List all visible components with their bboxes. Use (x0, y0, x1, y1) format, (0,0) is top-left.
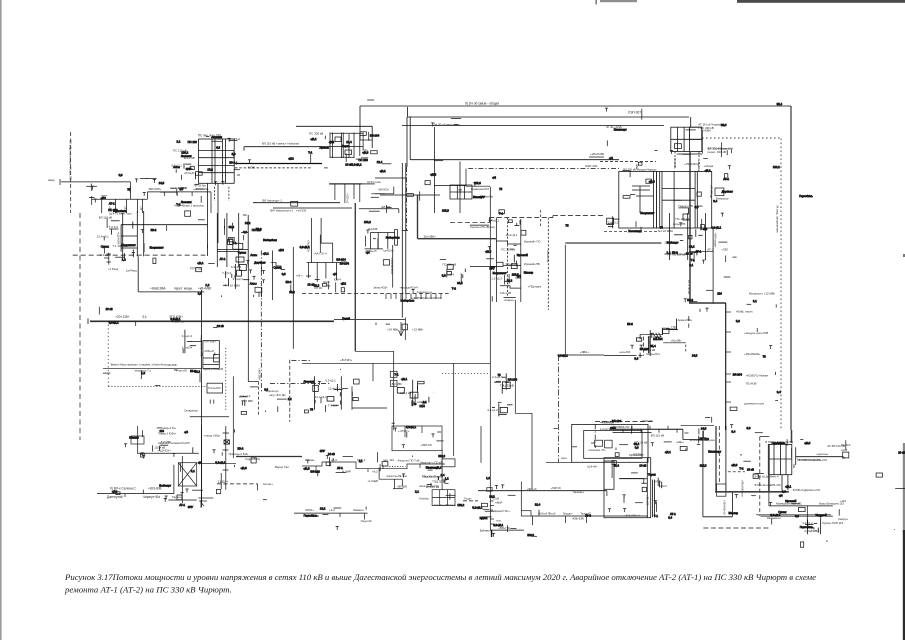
wire bus v1 x137 (136, 211, 138, 256)
wire mesh h193 (371, 193, 393, 195)
svg-text:+j0,8: +j0,8 (485, 250, 492, 254)
Дербент substation (768, 444, 795, 490)
wire jog2 (552, 216, 554, 218)
svg-text:Бабаюрт: Бабаюрт (159, 484, 171, 488)
svg-text:ВЛ-104: ВЛ-104 (733, 372, 743, 376)
svg-text:ВЛ-104: ВЛ-104 (612, 419, 622, 423)
svg-text:ВЛ 110 кВ: ВЛ 110 кВ (651, 434, 664, 438)
svg-text:Черкей ГЭС+: Черкей ГЭС+ (494, 509, 511, 513)
svg-text:+ЗВ+ЗВ+ЮВ+: +ЗВ+ЗВ+ЮВ+ (390, 258, 393, 275)
wire H y517 (703, 516, 733, 518)
ladder grid (432, 490, 455, 506)
wire dashdot H y528 (703, 527, 770, 529)
svg-text:+ЮН ОЛА: +ЮН ОЛА (195, 187, 208, 191)
svg-text:3,4: 3,4 (713, 199, 717, 203)
svg-text:АТ-1: АТ-1 (337, 466, 343, 470)
svg-text:+ЮЗУ-х2: +ЮЗУ-х2 (346, 193, 349, 204)
labels labels VV (707, 248, 728, 252)
svg-text:24,5+j8,2: 24,5+j8,2 (184, 171, 196, 175)
svg-text:18,2: 18,2 (320, 507, 326, 511)
wire drop at x360 (359, 106, 361, 140)
svg-text:0,8: 0,8 (216, 146, 220, 150)
svg-text:+110: +110 (840, 499, 847, 503)
svg-text:+8,4: +8,4 (331, 458, 337, 462)
svg-text:+ЗВА+: +ЗВА+ (580, 350, 589, 354)
svg-text:75: 75 (413, 402, 417, 406)
wire (689, 250, 713, 252)
svg-text:+j0,8: +j0,8 (649, 179, 656, 183)
wire corner x398 (398, 209, 400, 213)
wire heavy top stub (354, 203, 356, 213)
svg-text:+j2,4: +j2,4 (841, 448, 848, 452)
substation cluster Гуниб Q (397, 380, 429, 407)
svg-text:10 кВ: 10 кВ (686, 252, 693, 256)
labels of Гуниб Q (392, 382, 426, 404)
wire (141, 453, 143, 455)
svg-text:+кЗ+Ч: +кЗ+Ч (659, 484, 667, 488)
wire heavy L horizontal (418, 238, 497, 240)
svg-text:0,8: 0,8 (747, 426, 751, 430)
svg-text:10 кВ: 10 кВ (217, 324, 224, 328)
svg-text:6,3+j2,1: 6,3+j2,1 (472, 506, 482, 510)
svg-text:+ЛЭП-ПО: +ЛЭП-ПО (420, 443, 432, 447)
svg-text:КЗ-2: КЗ-2 (151, 228, 157, 232)
small box right of F (715, 188, 724, 196)
svg-text:АТ-1 ЧГЭС: АТ-1 ЧГЭС (687, 280, 691, 295)
svg-text:2,1+j0,4: 2,1+j0,4 (182, 346, 193, 350)
wire link x407 top (406, 107, 408, 117)
svg-text:+кВаР: +кВаР (495, 501, 503, 504)
wire tick (191, 192, 193, 196)
svg-text:+j4: +j4 (779, 493, 783, 497)
svg-text:Мощн+Югэ: Мощн+Югэ (646, 352, 660, 356)
wire (137, 426, 139, 454)
svg-text:+ВЛцЕВ: +ВЛцЕВ (397, 485, 407, 489)
wire tick (213, 400, 215, 404)
wire B3 heavy (236, 456, 302, 458)
wire dash-dot y222 west (450, 222, 489, 224)
svg-text:+ЮВ+ГЭС: +ЮВ+ГЭС (498, 527, 510, 530)
svg-text:3,4: 3,4 (777, 390, 781, 394)
svg-text:ЗГ+ЮВА: ЗГ+ЮВА (673, 158, 677, 169)
svg-text:1,2: 1,2 (141, 371, 145, 375)
wire tie (121, 235, 137, 237)
substation cluster labels LL (0, 0, 1, 1)
svg-text:АТ-1: АТ-1 (670, 512, 676, 516)
labels of ПС Махачкала labels (240, 394, 254, 403)
svg-text:Т-1: Т-1 (308, 151, 313, 155)
svg-text:ПС 110 кВ: ПС 110 кВ (501, 248, 515, 252)
wire up (702, 431, 704, 440)
wire tick (339, 513, 341, 517)
wire dashdot x406 lower (406, 167, 408, 230)
wire x725 join (725, 426, 727, 430)
svg-text:1,2: 1,2 (486, 476, 490, 480)
scan mark right edge dot (903, 254, 905, 257)
svg-text:12,4: 12,4 (377, 160, 383, 164)
svg-text:115,8: 115,8 (474, 181, 481, 185)
wire dashdot y421 (595, 421, 654, 423)
svg-text:ВЛ 110 кВ: ВЛ 110 кВ (99, 216, 112, 220)
wire dash-dot y215 east (553, 215, 604, 217)
wire dashdot v x643 (643, 337, 645, 356)
svg-text:КЗ-2: КЗ-2 (190, 369, 196, 373)
svg-text:6,3+j2,1: 6,3+j2,1 (770, 513, 780, 517)
svg-text:+j3,1: +j3,1 (263, 251, 270, 255)
svg-text:6,3+j2,1: 6,3+j2,1 (231, 265, 242, 269)
wire (200, 500, 202, 508)
svg-text:+j0,8: +j0,8 (804, 441, 811, 445)
wire dotted v x108 (107, 325, 109, 388)
svg-text:1,2+j0,3: 1,2+j0,3 (491, 277, 502, 281)
svg-text:116: 116 (717, 292, 722, 296)
svg-text:Избербаш: Избербаш (386, 235, 400, 239)
svg-text:Гоцатль+ПО кВ(зим): Гоцатль+ПО кВ(зим) (470, 225, 495, 229)
wire tick (166, 225, 168, 231)
wire left stub (61, 181, 131, 183)
box under x137 (131, 436, 144, 444)
svg-text:+j4: +j4 (366, 250, 370, 254)
wire vertical x515 (514, 300, 516, 414)
wire v x460 (459, 162, 461, 214)
svg-text:Бабаюрт: Бабаюрт (667, 241, 679, 245)
Артем box MM (604, 458, 651, 518)
svg-text:Леваши: Леваши (181, 154, 192, 158)
wire dashdot v x719 (718, 426, 720, 483)
substation cluster ГЭС boxes L (447, 265, 466, 279)
svg-text:+j3,1: +j3,1 (435, 466, 442, 470)
svg-text:6,3+j2,1: 6,3+j2,1 (215, 460, 225, 464)
scan edge right dark bar (903, 530, 905, 640)
svg-text:1,2+j0,3: 1,2+j0,3 (600, 427, 611, 431)
svg-text:10 кВ: 10 кВ (898, 450, 905, 454)
svg-text:ЗРУ: ЗРУ (480, 195, 485, 199)
svg-text:12,4+j3,1: 12,4+j3,1 (606, 221, 618, 225)
wire v x713 (712, 228, 714, 304)
svg-text:24,5: 24,5 (159, 181, 165, 185)
wire feeder b (344, 184, 346, 203)
svg-text:6,3+j2,1: 6,3+j2,1 (325, 378, 336, 382)
wire feeder d (359, 184, 361, 202)
svg-text:Хунзах: Хунзах (320, 145, 330, 149)
svg-text:8,6: 8,6 (703, 227, 707, 231)
bus Ирганай M (490, 187, 548, 310)
svg-text:АТ-1: АТ-1 (109, 202, 115, 206)
svg-text:8,6: 8,6 (634, 357, 638, 361)
svg-text:Касумкент: Касумкент (493, 271, 508, 275)
svg-text:Аэропорт+щ: Аэропорт+щ (417, 290, 433, 294)
svg-text:ВЛ-104: ВЛ-104 (653, 337, 663, 341)
svg-text:нагр +ЮУ ДЦ: нагр +ЮУ ДЦ (269, 393, 285, 397)
svg-text:АТ-1: АТ-1 (220, 257, 226, 261)
svg-text:0,8: 0,8 (282, 272, 286, 276)
svg-text:авар.: авар. (48, 178, 55, 182)
wire v x726 (725, 426, 727, 492)
wire (681, 425, 714, 427)
svg-text:6,3+j2,1: 6,3+j2,1 (558, 354, 568, 358)
svg-text:+НЕФТЕБАЗА+ЮЗИ+ЮЗ: +НЕФТЕБАЗА+ЮЗИ+ЮЗ (411, 296, 442, 300)
wire v x272 (272, 250, 274, 300)
svg-text:+ЛУВЛВЛ+: +ЛУВЛВЛ+ (631, 453, 645, 457)
wire heavy H y303 (689, 302, 726, 304)
feeder bus bottom-left (89, 196, 147, 213)
wire (806, 506, 808, 529)
wire dashdot y360 (291, 359, 310, 361)
svg-text:6,3+j2,1: 6,3+j2,1 (711, 226, 721, 230)
svg-text:0,8: 0,8 (264, 387, 268, 391)
svg-text:+ЮкВ, перет.: +ЮкВ, перет. (736, 310, 754, 314)
wire (465, 169, 467, 187)
svg-text:+общая: +общая (704, 164, 714, 168)
wire dashdot (217, 483, 258, 485)
svg-text:+кЗ-х: +кЗ-х (296, 274, 303, 278)
svg-text:АТ-1: АТ-1 (707, 248, 713, 252)
svg-text:+j12: +j12 (278, 248, 284, 252)
svg-text:ПС 110 кВ: ПС 110 кВ (676, 217, 690, 221)
labels of cluster N (182, 334, 193, 350)
wire dash v x685 (685, 345, 687, 354)
svg-text:18,2: 18,2 (207, 168, 213, 172)
svg-text:34 ред. напряжение: 34 ред. напряжение (776, 205, 780, 233)
wire heavy ГЭС bar (666, 328, 677, 330)
svg-text:0,8: 0,8 (119, 173, 123, 177)
svg-text:Т-2: Т-2 (452, 287, 457, 291)
wire vertical x453 (453, 363, 455, 456)
svg-text:ПС 110: ПС 110 (359, 158, 369, 162)
svg-text:+335: +335 (721, 248, 728, 252)
svg-text:+24 МВт: +24 МВт (387, 328, 399, 332)
wire (531, 413, 533, 489)
ladder Гельбах (450, 185, 472, 199)
chain across bottom center (302, 458, 445, 472)
wire corner up (173, 465, 175, 494)
labels of labels above ladder (422, 474, 447, 489)
svg-text:Избербаш: Избербаш (263, 238, 277, 242)
wire jog (488, 218, 490, 223)
svg-text:мал+: мал+ (561, 457, 568, 460)
labels of cluster below F (658, 217, 690, 256)
svg-text:Кизилюрт: Кизилюрт (708, 449, 722, 453)
svg-text:+мощ ЮЗВА: +мощ ЮЗВА (170, 186, 186, 190)
svg-text:+j12: +j12 (112, 490, 118, 494)
svg-text:2,1: 2,1 (415, 490, 419, 494)
svg-text:ЗРУ: ЗРУ (489, 267, 494, 271)
wire bus v2 x143 (143, 211, 145, 256)
svg-text:Дербент: Дербент (722, 190, 734, 194)
svg-text:+ЛЭП-Ю: +ЛЭП-Ю (550, 486, 561, 490)
svg-text:Дженгутай: Дженгутай (107, 495, 123, 499)
svg-text:Сулак: Сулак (101, 245, 110, 249)
svg-text:0,8: 0,8 (243, 230, 247, 234)
labels of cluster R (492, 375, 514, 387)
wire vertical x233 (232, 376, 234, 458)
labels of left tie labels (172, 149, 197, 176)
svg-text:6,3+j2,1: 6,3+j2,1 (170, 317, 180, 321)
svg-text:ГЭС: ГЭС (671, 325, 676, 329)
svg-text:Леваши: Леваши (211, 135, 222, 139)
svg-text:Ирганай: Ирганай (517, 253, 528, 257)
wire heavy vertical x690 (689, 152, 691, 303)
svg-text:Ахты: Ахты (173, 165, 180, 169)
wire jog 1 (375, 177, 405, 179)
svg-text:35,4: 35,4 (777, 102, 783, 106)
svg-text:3,4: 3,4 (142, 315, 147, 319)
svg-text:+безопасн. Ю+: +безопасн. Ю+ (588, 449, 606, 452)
svg-text:Т-1 10 МВА: Т-1 10 МВА (225, 284, 240, 288)
wire dash drop 2 (228, 187, 230, 201)
svg-text:10 кВ: 10 кВ (106, 307, 113, 311)
labels chain labels 2 (312, 470, 378, 474)
arrow cluster (198, 498, 213, 506)
wire (701, 130, 703, 153)
wire drop at x407 (406, 117, 408, 167)
svg-text:б) 2Н об связи - общая: б) 2Н об связи - общая (465, 101, 499, 105)
wire bus y184 thin (362, 183, 374, 185)
wire rect left (137, 256, 139, 292)
wire drop to Чиркей box (690, 117, 692, 127)
labels B6 labels (305, 508, 364, 512)
svg-text:1,2: 1,2 (667, 251, 671, 255)
svg-text:Касумкент: Касумкент (122, 243, 137, 247)
svg-text:6,3+j2,1: 6,3+j2,1 (109, 320, 119, 324)
svg-text:ЗЦ+ЮВ: ЗЦ+ЮВ (368, 227, 378, 231)
svg-text:3,4+j1,2: 3,4+j1,2 (487, 408, 498, 412)
svg-text:+В ЛЭП+: +В ЛЭП+ (340, 358, 352, 362)
svg-text:Сулак: Сулак (238, 251, 247, 255)
svg-text:115,8: 115,8 (700, 463, 707, 467)
wire arrow down (257, 484, 259, 491)
svg-text:+вДЦ+: +вДЦ+ (676, 441, 684, 444)
svg-text:Щ-й+М+: Щ-й+М+ (588, 465, 598, 469)
labels chain labels 1 (305, 458, 394, 462)
svg-text:ПС 110: ПС 110 (188, 140, 198, 144)
svg-text:ВЛ к Дагестанская - Искра ПС: ВЛ к Дагестанская - Искра ПС (69, 140, 73, 180)
wire drop (768, 493, 770, 506)
svg-text:+j12: +j12 (341, 282, 347, 286)
svg-text:+ЮВ+об: +ЮВ+об (204, 350, 215, 353)
wire v x676 stub (676, 319, 678, 331)
svg-text:+j3,1: +j3,1 (310, 137, 317, 141)
svg-text:35,4: 35,4 (721, 123, 727, 127)
svg-text:+j3,1: +j3,1 (197, 261, 204, 265)
svg-text:Кизляр: Кизляр (729, 511, 739, 515)
svg-text:Кизилюрт: Кизилюрт (614, 127, 628, 131)
svg-text:+j4: +j4 (609, 156, 613, 160)
column x225 with transformer (221, 426, 229, 490)
svg-text:2,1: 2,1 (177, 140, 181, 144)
svg-text:ПС+ЮВ: ПС+ЮВ (746, 382, 757, 386)
svg-text:75: 75 (565, 224, 569, 228)
svg-text:8,6: 8,6 (198, 292, 202, 296)
box O Махачкала (203, 341, 219, 369)
bus box ПС 330 (199, 139, 235, 183)
wire tick (586, 516, 588, 523)
svg-text:1а+Ранд: 1а+Ранд (126, 269, 137, 273)
wire vertical x182 (181, 456, 183, 503)
wire dotted (442, 372, 490, 374)
svg-text:+2,4: +2,4 (329, 508, 335, 512)
right edge labels (838, 443, 851, 521)
svg-text:+модуль цепь ЮВ: +модуль цепь ЮВ (744, 331, 768, 335)
wire B7 west (531, 515, 648, 517)
labels of ПС Леваши P (315, 378, 341, 407)
scan edge top dark strip (737, 0, 905, 3)
labels of cluster SS (802, 521, 821, 532)
wire chain second (613, 432, 652, 434)
svg-text:3,4+j1,2: 3,4+j1,2 (506, 262, 517, 266)
substation cluster ПС Махачкала labels (239, 397, 248, 406)
svg-text:1,2: 1,2 (122, 257, 126, 261)
labels of cluster S (487, 408, 498, 412)
svg-text:ВЛ-104: ВЛ-104 (508, 377, 518, 381)
wire (480, 426, 482, 463)
labels of Искра ПС T (644, 335, 662, 352)
wire heavy vertical x725 (725, 303, 727, 430)
substation cluster Избербаш row labels (160, 445, 193, 453)
substation cluster ПС Леваши P (313, 376, 353, 409)
svg-text:110,2: 110,2 (773, 165, 780, 169)
wire H y355 (559, 354, 604, 356)
svg-text:+АТ+общ: +АТ+общ (697, 160, 701, 172)
wire staircase v1 (378, 468, 380, 479)
svg-text:+ИЗ+РЕЛЕ+: +ИЗ+РЕЛЕ+ (744, 352, 761, 356)
wire central vertical lower (201, 426, 203, 503)
wire feeder c (353, 184, 355, 199)
svg-text:+об ЮЗ: +об ЮЗ (296, 209, 306, 213)
wire M3 terminal (87, 319, 89, 325)
wire corner y381 (248, 381, 258, 383)
svg-text:18,2: 18,2 (489, 495, 495, 499)
scan edge left gray line (0, 0, 2, 640)
box x521 (521, 511, 531, 516)
wire step up (146, 192, 148, 199)
svg-text:Падеж 1 УВ: Падеж 1 УВ (679, 204, 694, 208)
wire tick (124, 494, 126, 497)
svg-text:ГЭС 330 кВ: ГЭС 330 кВ (698, 126, 713, 130)
wire double v a (652, 480, 654, 517)
svg-text:+ЗВ+ЮЗ+об: +ЗВ+ЮЗ+об (723, 500, 726, 515)
svg-text:8,6: 8,6 (232, 152, 236, 156)
svg-text:Ахты: Ахты (250, 282, 257, 286)
svg-text:+20+135+: +20+135+ (115, 315, 130, 319)
svg-text:+кВ+ЗВА: +кВ+ЗВА (258, 368, 262, 380)
svg-text:115,8: 115,8 (442, 208, 449, 212)
labels of right of tall bus (222, 265, 243, 288)
svg-text:+6,2: +6,2 (372, 470, 378, 474)
labels of Избербаш row labels (154, 440, 171, 450)
wire drop B6 (364, 514, 366, 520)
svg-text:+j12: +j12 (101, 196, 107, 200)
svg-text:116,1 кВ: 116,1 кВ (500, 291, 511, 295)
svg-text:+напряжение+ЮВ+: +напряжение+ЮВ+ (199, 335, 202, 358)
svg-text:Белиджи+расшир: Белиджи+расшир (797, 458, 821, 462)
svg-text:Хасавюрт: Хасавюрт (628, 229, 642, 233)
wire second top line (407, 116, 689, 118)
wire H y355 east solid (604, 355, 633, 357)
svg-text:Гельбах: Гельбах (419, 497, 429, 501)
wire dotted v x225 (225, 348, 227, 411)
wire right vertical heavy end (791, 430, 793, 443)
box F Чирюрт (656, 171, 711, 228)
svg-text:ВЛ 110 кВ +связь+ Новолак: ВЛ 110 кВ +связь+ Новолак (262, 142, 300, 146)
wire dash-dot H y255 (73, 254, 206, 256)
wire v x410 (409, 117, 411, 160)
wire arrows down (404, 318, 406, 341)
svg-text:Т-2: Т-2 (739, 467, 744, 471)
svg-text:АТ-1: АТ-1 (179, 503, 185, 507)
svg-text:Сепаратор+: Сепаратор+ (184, 409, 199, 413)
wire V x565 (564, 245, 566, 355)
